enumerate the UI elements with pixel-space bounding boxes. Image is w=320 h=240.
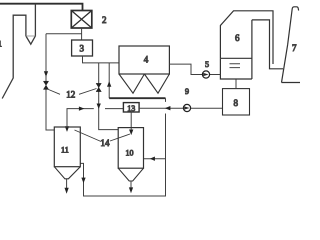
arrow down on x=83.5 [82,178,85,183]
arrow down into silo 10 [130,130,133,135]
arrow down on x=46 [44,72,47,77]
arrow right on interconnect [79,107,83,110]
wire: 3 down to ESP inlet line [83,56,120,63]
wire: side feed into silo 10 [144,158,166,160]
silo 11 body [54,127,80,167]
svg-text:7: 7 [292,43,297,53]
wire: left downcomer x=46 to silo 11 [46,34,54,130]
arrow left into silo 10 [151,157,155,160]
component 6 right wall and duct lower line [252,20,283,79]
arrow down into silo 11 [65,127,68,131]
svg-text:13: 13 [127,104,135,113]
silo 10 hopper [118,168,143,181]
ESP hopper left [119,74,144,93]
silo 11 hopper [54,167,80,179]
svg-text:10: 10 [126,149,134,158]
component 4 ESP body [119,46,169,74]
svg-text:11: 11 [61,146,69,155]
svg-text:5: 5 [205,60,209,69]
heater bars inside 6 [230,64,241,68]
wire: flue gas top line from boiler to component 2 [0,4,83,11]
svg-text:14: 14 [101,138,111,148]
boiler 1 body (furnace outline, cropped at left) [2,15,26,98]
svg-text:1: 1 [0,40,2,49]
valve on x=98.7 [96,83,101,91]
wire: thick return line y=98.2 to right riser [109,97,165,99]
wire: 13 to pump 9 with left arrow, crossover over riser [139,107,183,109]
svg-text:3: 3 [80,44,85,54]
wire: vertical A with valve (component 12 right) [99,63,119,130]
boiler 1 hopper V and riser to top line [26,4,36,45]
fan 5 circle [202,71,209,78]
svg-text:6: 6 [235,33,240,43]
ESP hopper right [144,74,169,93]
valve on x=46 line (component 12 left) [43,81,48,89]
wire: 2 to 3 [81,28,83,40]
wire: ESP 4 outlet to fan 5 and into 6 [169,64,220,74]
silo 10 discharge [130,181,132,188]
silo 11 discharge [66,179,68,188]
arrow down on x=98.7 [97,104,100,108]
arrow up on x=109.2 [108,82,111,86]
silo 10 body [118,128,143,169]
svg-text:9: 9 [185,87,189,96]
wire: vertical B with up arrow [108,63,110,98]
svg-text:12: 12 [66,89,75,99]
component 6 body [220,11,273,64]
component 2 box with X (air preheater) [71,11,92,29]
wire: 8 up to 6 [235,79,237,89]
wire: 13 down into silo 10 [130,112,132,129]
wire: horizontal recirculation line y=33.7 [46,33,82,35]
boiler 1 hopper top tick [26,35,36,37]
component 8 box [223,89,250,115]
svg-text:2: 2 [102,15,107,25]
component 13 small box [123,103,139,112]
stack 7 base [282,82,301,84]
wire: pump 9 to box 8 [191,107,223,109]
wire: silo interconnect corner line [67,109,123,127]
component 3 box [72,40,93,56]
svg-text:8: 8 [234,98,239,108]
pump 9 circle [183,104,190,111]
svg-text:4: 4 [144,55,149,65]
component 6 bottom section [220,58,252,79]
wire: right riser x=165.5 with crossover gap [80,98,165,196]
stack 7 [282,7,299,83]
